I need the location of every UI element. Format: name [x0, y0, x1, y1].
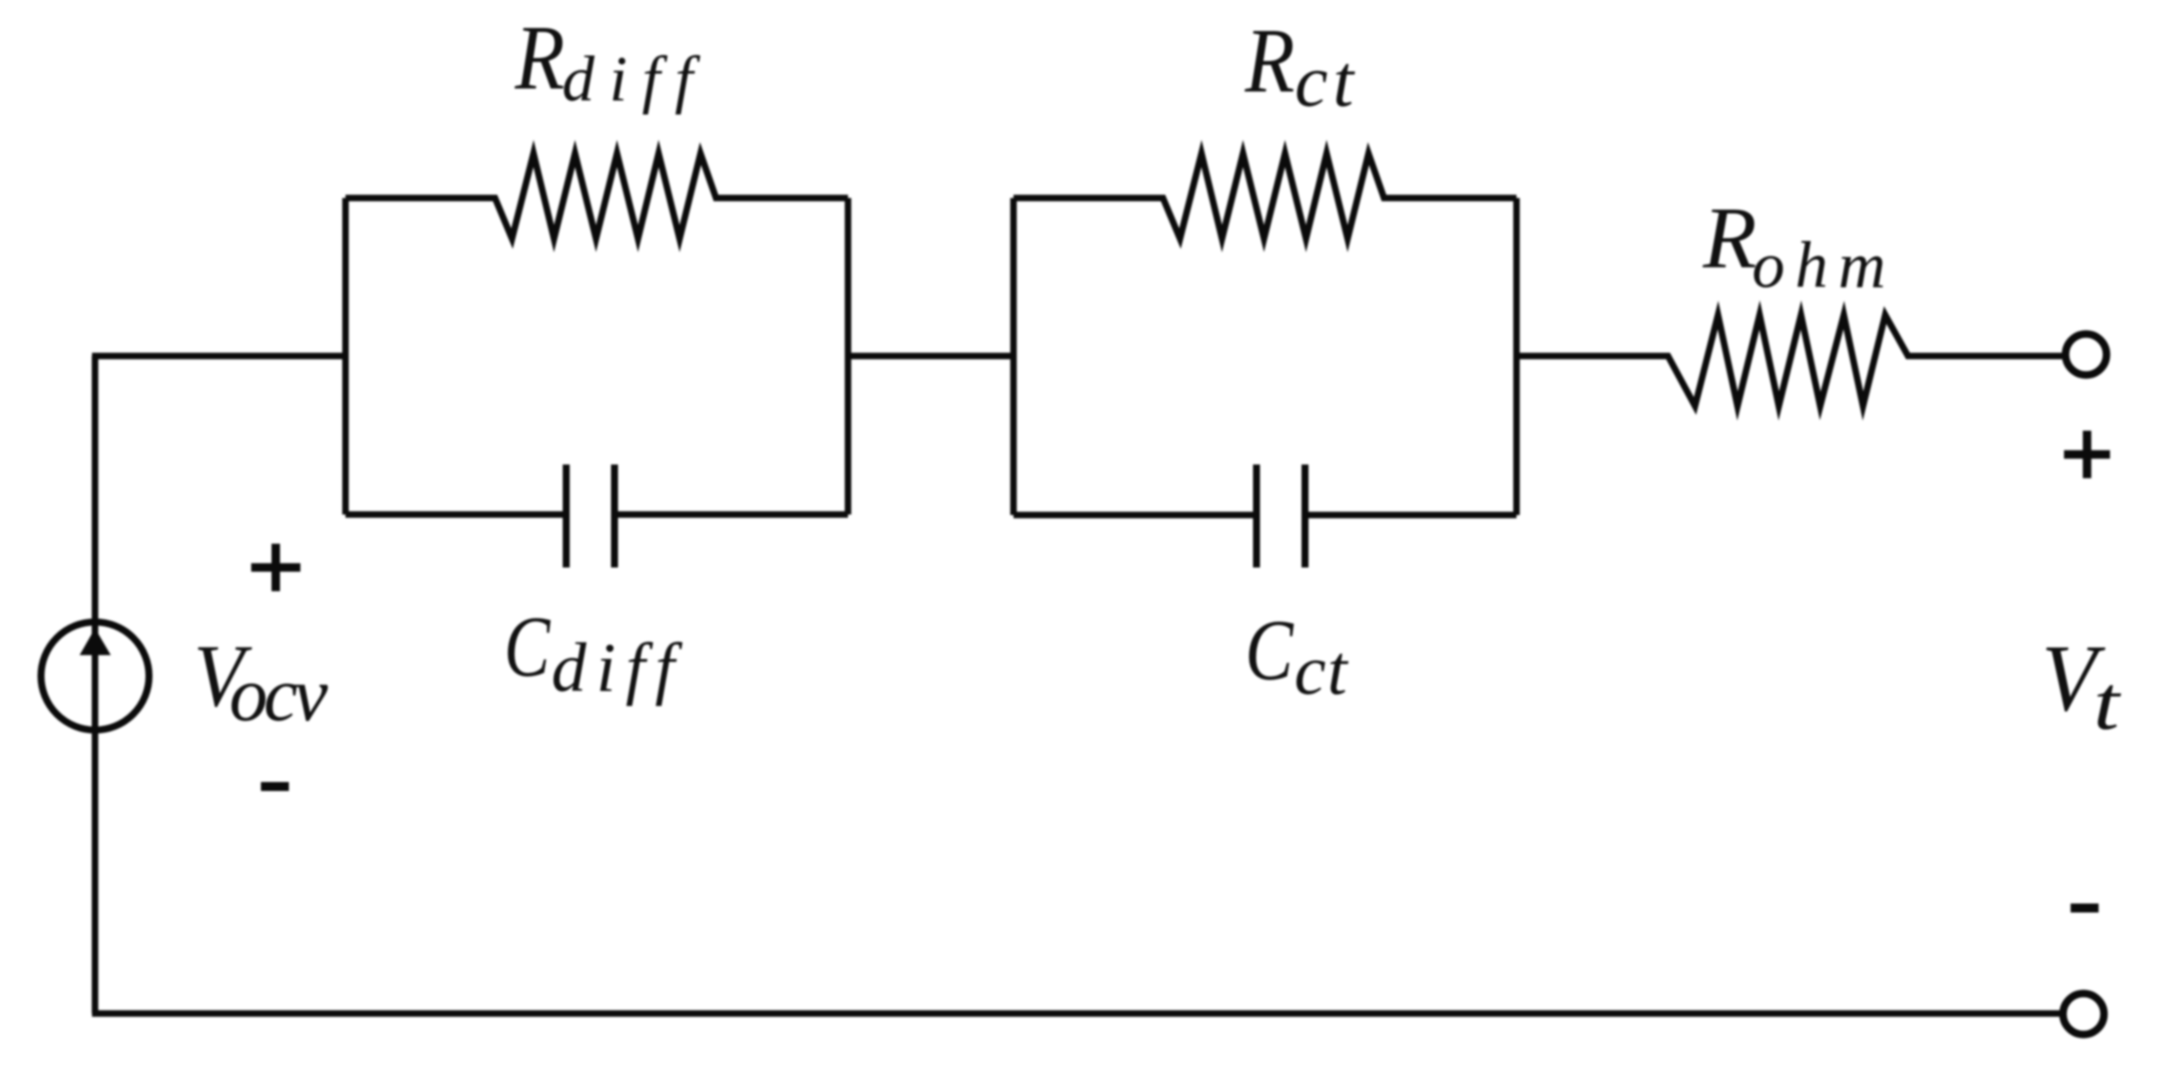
svg-text:ocv: ocv — [229, 651, 328, 737]
svg-text:ct: ct — [1295, 41, 1359, 123]
svg-text:C: C — [504, 598, 551, 695]
svg-text:R: R — [514, 6, 565, 108]
svg-text:t: t — [2093, 660, 2121, 746]
svg-text:C: C — [1245, 601, 1294, 698]
svg-text:R: R — [1244, 10, 1295, 112]
svg-text:diff: diff — [551, 630, 684, 707]
svg-text:diff: diff — [562, 44, 707, 116]
svg-text:ct: ct — [1294, 631, 1349, 710]
svg-text:R: R — [1702, 191, 1757, 288]
svg-text:ohm: ohm — [1752, 229, 1896, 302]
